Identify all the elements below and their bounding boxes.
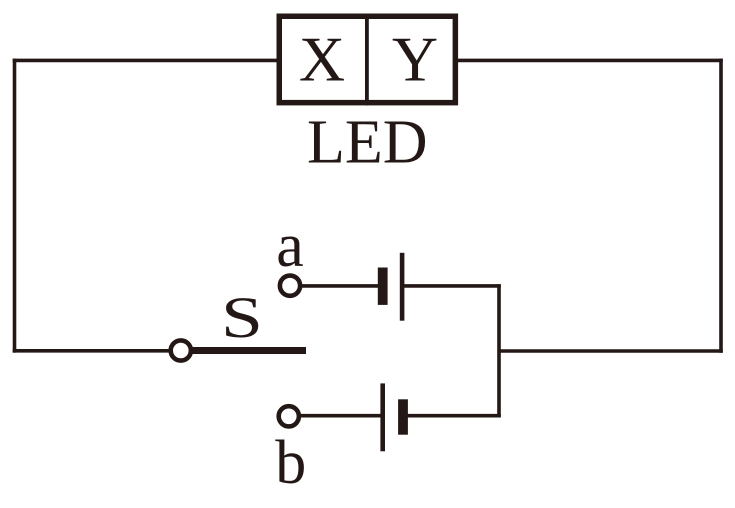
wire: top-right horizontal from LED box to right rail [456,59,723,63]
LED box outline [279,16,455,102]
svg-text:Y: Y [392,24,438,95]
wire: contact b to battery G2 [300,414,383,418]
wire: battery G1 to junction [403,284,501,288]
wire: middle horizontal from battery junction to right rail [499,349,723,353]
battery G1 positive plate (long thin bar) [400,253,405,321]
label S (switch) [221,285,263,350]
svg-text:X: X [299,24,345,95]
switch contact b terminal circle [279,406,299,426]
LED box divider between X and Y [365,14,369,106]
svg-text:LED: LED [307,109,428,177]
svg-text:b: b [275,429,306,497]
wire: left vertical rail [13,59,17,353]
switch S blade (open, horizontal) [191,347,306,354]
wire: bottom-left horizontal to switch pivot [13,349,172,353]
battery G2 positive plate (long thin bar) [380,383,385,451]
wire: junction vertical joining both battery branches [497,284,501,417]
battery G1 negative plate (short thick bar) [378,268,388,305]
wire: battery G2 to junction [404,414,501,418]
switch contact a terminal circle [280,276,300,296]
wire: right vertical rail [719,59,723,353]
battery G2 negative plate (short thick bar) [398,399,408,434]
svg-text:a: a [276,212,304,280]
switch S pivot terminal circle [171,340,191,360]
svg-text:S: S [221,285,263,350]
wire: top-left horizontal from left rail to LED box [13,59,279,63]
wire: contact a to battery G1 [300,284,379,288]
